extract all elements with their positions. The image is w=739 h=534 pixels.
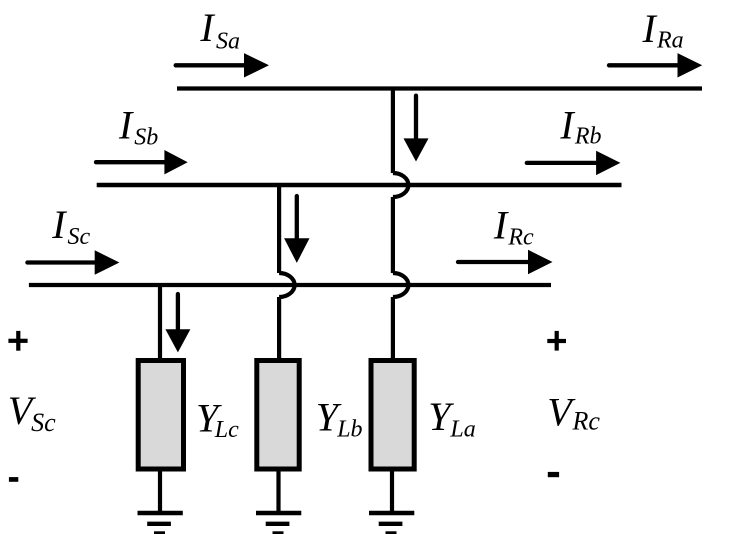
current arrow IRa	[609, 53, 702, 77]
label IRc	[493, 202, 534, 250]
svg-text:I: I	[642, 6, 658, 51]
polarity - (sending side)	[9, 477, 18, 482]
svg-text:I: I	[118, 103, 134, 148]
label ISa	[199, 5, 240, 55]
label YLa	[428, 394, 476, 443]
svg-text:I: I	[51, 202, 67, 247]
wire shunt drop from phase c	[158, 285, 162, 359]
shunt current arrow into YLb	[284, 196, 309, 263]
label ISb	[118, 103, 158, 151]
polarity - (receiving side)	[548, 472, 559, 477]
wire phase c	[29, 283, 551, 287]
shunt current arrow into YLa	[404, 96, 429, 162]
ground symbol under YLc	[138, 513, 183, 534]
svg-text:Ra: Ra	[656, 27, 684, 53]
svg-text:Sa: Sa	[216, 29, 240, 55]
ground symbol under YLb	[256, 513, 301, 534]
ground symbol under YLa	[369, 513, 414, 534]
admittance YLc (box)	[138, 361, 183, 470]
polarity + (sending side)	[8, 331, 27, 351]
current arrow ISb	[96, 150, 188, 174]
wire phase a	[177, 86, 702, 90]
svg-text:Lc: Lc	[214, 417, 239, 443]
svg-text:I: I	[199, 5, 215, 50]
wire YLc to ground	[158, 471, 162, 512]
label ISc	[51, 202, 90, 250]
label IRb	[559, 102, 601, 149]
svg-text:Rb: Rb	[574, 123, 602, 149]
svg-text:Sc: Sc	[68, 224, 91, 250]
wire shunt drop from phase b (with crossover hop over c)	[279, 185, 294, 359]
label YLb	[316, 394, 363, 442]
current arrow IRb	[527, 151, 621, 175]
svg-text:La: La	[449, 417, 475, 443]
label VRc	[547, 390, 600, 436]
polarity + (receiving side)	[547, 331, 566, 351]
wire YLb to ground	[276, 471, 280, 512]
wire shunt drop from phase a (with crossover hops over b and c)	[393, 89, 409, 360]
svg-text:Sb: Sb	[134, 124, 158, 150]
wire YLa to ground	[390, 471, 394, 512]
svg-text:Rc: Rc	[572, 406, 601, 435]
current arrow IRc	[458, 250, 553, 274]
shunt current arrow into YLc	[165, 294, 190, 352]
admittance YLb (box)	[257, 361, 299, 470]
label IRa	[642, 6, 684, 54]
svg-text:Lb: Lb	[336, 417, 362, 443]
svg-text:I: I	[493, 202, 509, 247]
wire phase b	[97, 183, 622, 188]
admittance YLa (box)	[371, 361, 414, 470]
current arrow ISa	[176, 53, 269, 77]
svg-text:I: I	[559, 102, 575, 147]
current arrow ISc	[27, 250, 119, 274]
svg-text:Rc: Rc	[507, 224, 534, 250]
label VSc	[8, 388, 56, 437]
label YLc	[196, 396, 239, 444]
svg-text:Sc: Sc	[31, 408, 56, 437]
